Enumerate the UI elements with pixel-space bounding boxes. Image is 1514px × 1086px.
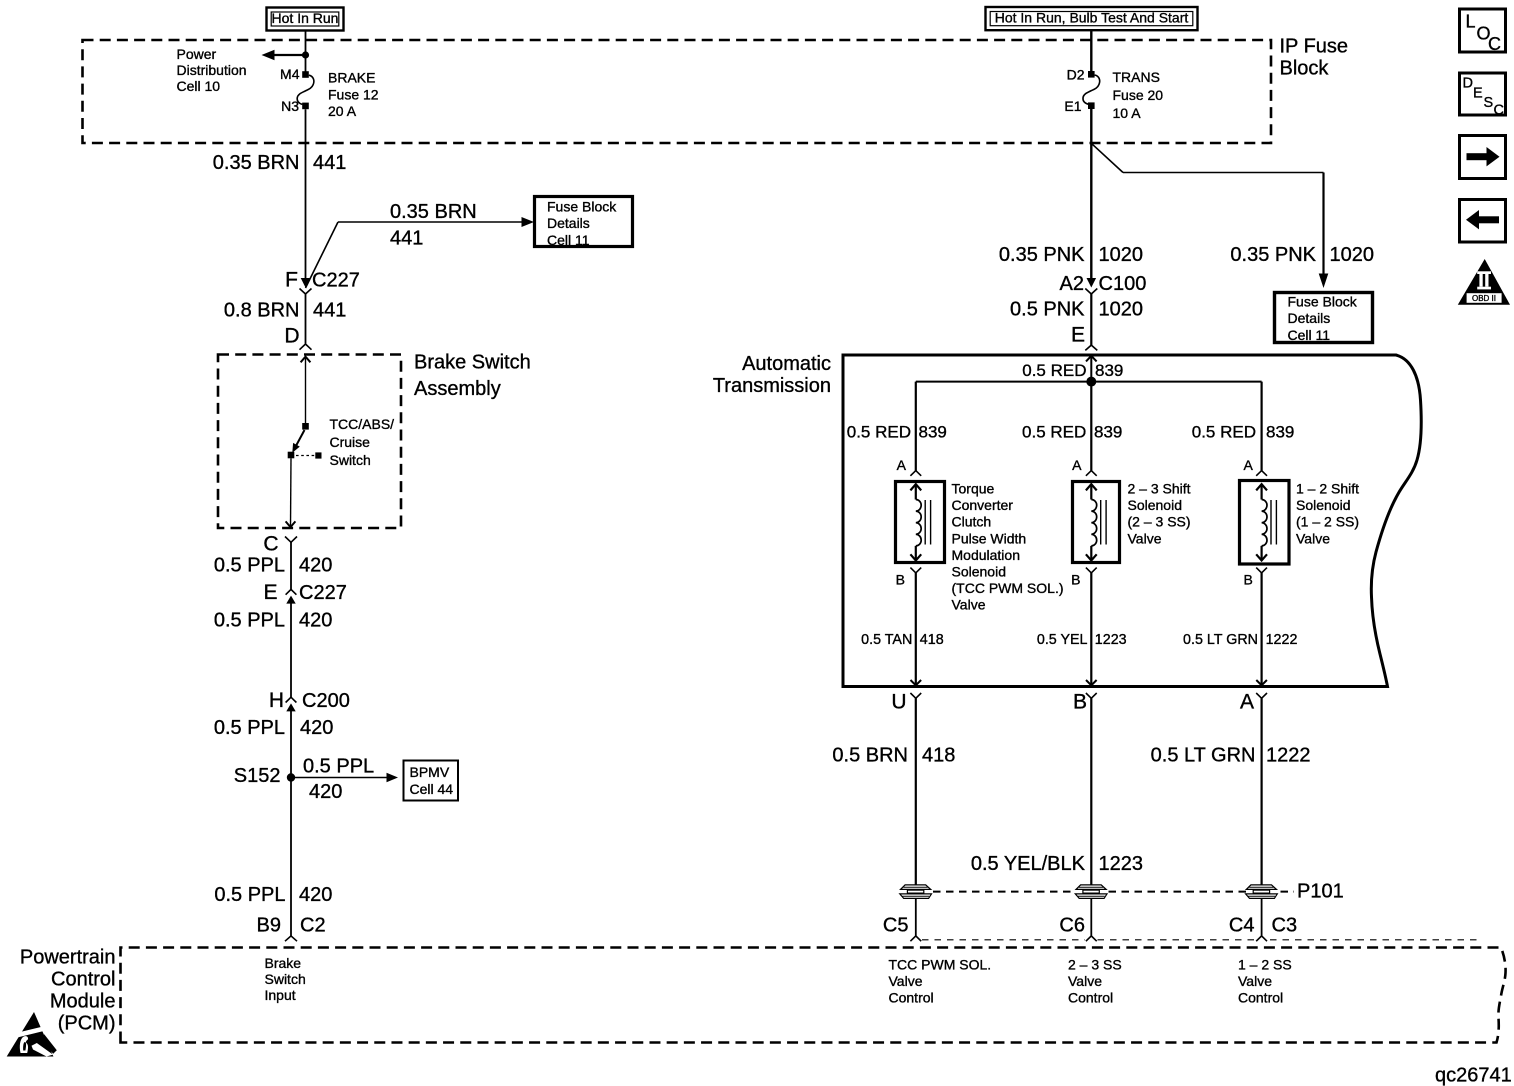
- svg-text:420: 420: [299, 610, 332, 632]
- svg-text:D: D: [1463, 76, 1473, 92]
- svg-text:Brake: Brake: [265, 955, 302, 971]
- icon forward arrow box: [1460, 136, 1506, 179]
- svg-text:839: 839: [919, 423, 947, 442]
- svg-text:0.5 BRN: 0.5 BRN: [832, 745, 908, 767]
- svg-text:Brake Switch: Brake Switch: [414, 352, 531, 374]
- label 0.35 BRN 441: [213, 152, 347, 174]
- svg-text:0.35 PNK: 0.35 PNK: [999, 244, 1085, 266]
- wire switch to box edge with down arrow: [286, 458, 296, 527]
- wire A2 to E: [1090, 294, 1092, 345]
- svg-text:0.5 PPL: 0.5 PPL: [214, 555, 285, 577]
- svg-text:C: C: [1488, 34, 1501, 54]
- svg-text:C100: C100: [1099, 273, 1147, 295]
- svg-text:C2: C2: [300, 915, 326, 937]
- svg-text:Details: Details: [547, 215, 590, 231]
- svg-text:Fuse Block: Fuse Block: [547, 199, 617, 215]
- pin D: [284, 325, 311, 350]
- wire E into box with up arrow: [1086, 356, 1097, 382]
- svg-text:BRAKE: BRAKE: [328, 70, 375, 86]
- svg-text:Block: Block: [1280, 58, 1330, 80]
- svg-text:0.5 RED: 0.5 RED: [847, 423, 911, 442]
- pin B below box: [1073, 691, 1097, 714]
- svg-text:B: B: [896, 572, 905, 588]
- svg-text:(TCC PWM SOL.): (TCC PWM SOL.): [952, 580, 1064, 596]
- svg-text:Valve: Valve: [1238, 973, 1272, 989]
- wire dashed between grommets 2-3: [1109, 891, 1247, 893]
- label 0.5 YEL 1223: [1037, 632, 1127, 648]
- label TCC PWM SOL Valve Control: [889, 957, 992, 1006]
- svg-text:C227: C227: [299, 582, 347, 604]
- svg-text:TCC PWM SOL.: TCC PWM SOL.: [889, 957, 992, 973]
- switch TCC/ABS/Cruise: [288, 423, 322, 459]
- label 0.8 BRN 441: [224, 300, 346, 322]
- svg-text:0.8 BRN: 0.8 BRN: [224, 300, 300, 322]
- wire C to E: [290, 542, 292, 589]
- connector A2 C100: [1060, 273, 1147, 295]
- svg-text:A2: A2: [1060, 273, 1084, 295]
- label 0.35 PNK 1020 (branch): [1230, 244, 1374, 266]
- connector F C227: [285, 269, 360, 295]
- wire B to grommet: [1090, 698, 1092, 885]
- svg-text:2 – 3 SS: 2 – 3 SS: [1068, 957, 1122, 973]
- svg-text:Input: Input: [265, 987, 296, 1003]
- svg-text:Solenoid: Solenoid: [1296, 497, 1351, 513]
- label 0.5 LT GRN 1222: [1183, 632, 1297, 648]
- wire TCC B to box edge with arrow: [911, 573, 922, 685]
- svg-text:1222: 1222: [1266, 632, 1298, 648]
- pin M4: [280, 66, 309, 82]
- wire drop to 1-2 solenoid: [1260, 382, 1262, 471]
- svg-text:N3: N3: [281, 98, 299, 114]
- label 0.5 BRN 418: [832, 745, 955, 767]
- wire U to grommet: [915, 698, 917, 885]
- svg-text:D: D: [284, 325, 299, 348]
- wire arrow to BPMV: [291, 773, 398, 783]
- wire branch horizontal right: [1123, 172, 1324, 174]
- label 0.5 RED 839 (middle): [1022, 423, 1122, 442]
- solenoid 2-3 SS coil: [1086, 484, 1106, 560]
- connector B9 C2: [257, 915, 326, 942]
- svg-text:1 – 2 Shift: 1 – 2 Shift: [1296, 481, 1359, 497]
- svg-text:C: C: [263, 533, 278, 556]
- svg-text:Cruise: Cruise: [330, 434, 371, 450]
- label 0.5 PPL 420 lower: [214, 884, 332, 906]
- svg-text:A: A: [1240, 691, 1254, 714]
- svg-text:10 A: 10 A: [1113, 105, 1142, 121]
- label 1-2 Shift Solenoid: [1296, 481, 1359, 547]
- svg-text:E: E: [263, 581, 277, 604]
- svg-text:Fuse 12: Fuse 12: [328, 86, 379, 102]
- svg-text:1 – 2 SS: 1 – 2 SS: [1238, 957, 1292, 973]
- pin D2: [1067, 67, 1095, 83]
- svg-text:0.5 PPL: 0.5 PPL: [214, 884, 285, 906]
- wire grommet to C5: [915, 898, 917, 936]
- svg-text:Valve: Valve: [952, 597, 986, 613]
- svg-text:TRANS: TRANS: [1113, 69, 1160, 85]
- svg-text:1222: 1222: [1266, 745, 1311, 767]
- label 0.5 PPL 420: [214, 717, 334, 739]
- svg-text:B: B: [1071, 572, 1080, 588]
- wire thin dashed connector line segment 1: [922, 939, 1085, 941]
- svg-text:Switch: Switch: [330, 452, 371, 468]
- icon DESC box: [1460, 73, 1506, 119]
- label IP Fuse Block: [1280, 36, 1349, 80]
- wire E to H: [290, 603, 292, 698]
- svg-text:Control: Control: [889, 990, 934, 1006]
- pin E transmission: [1071, 324, 1097, 351]
- label 0.5 RED 839 (top): [1022, 361, 1123, 380]
- label 0.5 RED 839 (left): [847, 423, 947, 442]
- wire 1-2 B to box edge with arrow: [1256, 573, 1267, 685]
- svg-text:Module: Module: [50, 991, 116, 1013]
- wire branch vertical with down arrow: [1319, 173, 1329, 289]
- automatic transmission box: [843, 355, 1421, 687]
- pin N3: [281, 98, 309, 114]
- svg-text:20 A: 20 A: [328, 103, 357, 119]
- connector E C227: [263, 581, 346, 604]
- svg-text:A: A: [1072, 457, 1082, 473]
- svg-text:Switch: Switch: [265, 971, 306, 987]
- svg-text:Valve: Valve: [1068, 973, 1102, 989]
- svg-text:Modulation: Modulation: [952, 547, 1021, 563]
- svg-text:M4: M4: [280, 66, 300, 82]
- label 0.5 PNK 1020: [1010, 299, 1143, 321]
- svg-text:2 – 3 Shift: 2 – 3 Shift: [1128, 481, 1191, 497]
- svg-text:A: A: [1243, 457, 1253, 473]
- svg-text:L: L: [1466, 12, 1476, 32]
- wire tag2 to D2: [1090, 30, 1092, 71]
- svg-text:0.5 TAN: 0.5 TAN: [861, 632, 912, 648]
- label TCC/ABS/Cruise Switch: [330, 416, 395, 468]
- svg-text:Distribution: Distribution: [177, 62, 247, 78]
- svg-text:Fuse Block: Fuse Block: [1288, 294, 1358, 310]
- svg-text:Cell 10: Cell 10: [177, 78, 221, 94]
- svg-text:1223: 1223: [1099, 853, 1144, 875]
- svg-text:Details: Details: [1288, 310, 1331, 326]
- label 0.5 RED 839 (right): [1192, 423, 1295, 442]
- connector C4 C3: [1229, 915, 1297, 942]
- tag Hot In Run Bulb Test And Start: [986, 7, 1198, 30]
- box Fuse Block Details Cell 11 (right): [1275, 293, 1373, 343]
- node red bus junction: [1086, 377, 1096, 387]
- svg-text:Automatic: Automatic: [742, 353, 831, 375]
- svg-text:420: 420: [299, 884, 332, 906]
- icon OBD II triangle: [1458, 259, 1510, 305]
- label Brake Switch Input: [265, 955, 306, 1003]
- svg-text:0.35 BRN: 0.35 BRN: [390, 201, 477, 223]
- brake switch assembly dashed box: [218, 355, 401, 529]
- label 0.5 LT GRN 1222 lower: [1151, 745, 1311, 767]
- pin B of 2-3 solenoid: [1071, 568, 1097, 588]
- wire thin dashed connector line segment 3: [1270, 939, 1480, 941]
- label 0.5 TAN 418: [861, 632, 944, 648]
- label BRAKE Fuse 12 20 A: [328, 70, 379, 120]
- svg-text:Hot In Run, Bulb Test And Star: Hot In Run, Bulb Test And Start: [995, 10, 1189, 26]
- connector C: [263, 533, 297, 556]
- svg-text:Fuse 20: Fuse 20: [1113, 87, 1164, 103]
- svg-text:Valve: Valve: [889, 973, 923, 989]
- svg-text:B: B: [1243, 572, 1252, 588]
- svg-text:420: 420: [309, 781, 342, 803]
- svg-text:0.5 PPL: 0.5 PPL: [303, 755, 374, 777]
- svg-text:839: 839: [1094, 423, 1122, 442]
- icon LOC box: [1460, 9, 1506, 54]
- icon ESD sensitive device symbol: [7, 1012, 57, 1057]
- svg-text:418: 418: [920, 632, 944, 648]
- svg-text:C5: C5: [883, 915, 909, 937]
- label 0.5 PPL 420: [214, 555, 333, 577]
- svg-text:C: C: [1494, 103, 1504, 119]
- svg-text:(2 – 3 SS): (2 – 3 SS): [1128, 514, 1191, 530]
- pin B of TCC solenoid: [896, 568, 922, 588]
- wire F to D: [305, 294, 307, 344]
- svg-text:441: 441: [313, 152, 346, 174]
- solenoid TCC PWM box: [896, 482, 945, 563]
- svg-text:Torque: Torque: [952, 481, 995, 497]
- solenoid 1-2 SS coil: [1256, 484, 1276, 560]
- IP fuse block dashed box: [83, 40, 1272, 143]
- svg-text:D2: D2: [1067, 67, 1085, 83]
- svg-text:qc26741: qc26741: [1435, 1065, 1512, 1086]
- solenoid 2-3 SS box: [1073, 482, 1120, 563]
- svg-text:Assembly: Assembly: [414, 378, 501, 400]
- svg-text:0.5 YEL/BLK: 0.5 YEL/BLK: [971, 853, 1086, 875]
- wire E1 to A2: [1090, 109, 1092, 279]
- svg-text:0.5 PPL: 0.5 PPL: [214, 717, 285, 739]
- label TRANS Fuse 20 10 A: [1113, 69, 1164, 121]
- solenoid 1-2 SS box: [1240, 481, 1290, 565]
- svg-text:1223: 1223: [1095, 632, 1127, 648]
- PCM dashed box: [121, 948, 1506, 1043]
- svg-text:Power: Power: [177, 46, 217, 62]
- svg-text:Control: Control: [51, 969, 115, 991]
- svg-text:Valve: Valve: [1128, 530, 1162, 546]
- svg-text:0.5 RED: 0.5 RED: [1022, 423, 1086, 442]
- svg-text:(1 – 2 SS): (1 – 2 SS): [1296, 514, 1359, 530]
- svg-text:H: H: [269, 689, 284, 712]
- svg-text:C6: C6: [1059, 915, 1085, 937]
- svg-text:Hot In Run: Hot In Run: [272, 10, 339, 26]
- svg-text:839: 839: [1095, 361, 1123, 380]
- svg-text:A: A: [897, 457, 907, 473]
- node S152: [234, 765, 295, 787]
- icon back arrow box: [1460, 200, 1506, 243]
- fuse TRANS Fuse 20 10 A: [1083, 75, 1100, 104]
- pin A of 2-3 solenoid: [1072, 457, 1097, 476]
- svg-text:Transmission: Transmission: [713, 375, 831, 397]
- svg-text:Control: Control: [1238, 990, 1283, 1006]
- label 0.5 PPL 420 on BPMV branch: [303, 755, 374, 803]
- wire thin dashed connector line segment 2: [1098, 939, 1258, 941]
- box Fuse Block Details Cell 11 (left): [535, 197, 633, 248]
- svg-text:C200: C200: [302, 690, 350, 712]
- svg-text:441: 441: [313, 300, 346, 322]
- svg-text:B: B: [1073, 691, 1087, 714]
- wire switch feed with up arrow: [301, 357, 311, 424]
- svg-text:S: S: [1484, 95, 1494, 111]
- label 0.35 BRN 441 on branch: [390, 201, 477, 250]
- label 0.5 YEL/BLK 1223: [971, 853, 1143, 875]
- pin B of 1-2 solenoid: [1243, 568, 1267, 588]
- svg-text:C4: C4: [1229, 915, 1255, 937]
- svg-text:(PCM): (PCM): [58, 1013, 116, 1035]
- grommet P101 middle: [1075, 885, 1107, 899]
- svg-text:420: 420: [299, 555, 332, 577]
- label 2-3 SS Valve Control: [1068, 957, 1122, 1006]
- svg-text:0.5 PPL: 0.5 PPL: [214, 610, 285, 632]
- grommet P101 left: [900, 885, 932, 899]
- svg-text:Pulse Width: Pulse Width: [952, 530, 1027, 546]
- wire dashed between grommets 1-2: [933, 891, 1074, 893]
- svg-text:441: 441: [390, 228, 423, 250]
- svg-text:C3: C3: [1272, 915, 1298, 937]
- pin A of TCC solenoid: [897, 457, 922, 476]
- grommet P101 right: [1246, 885, 1278, 899]
- wire branch diagonal to fuse block details: [306, 222, 339, 288]
- wire drop to 2-3 solenoid: [1090, 382, 1092, 471]
- svg-text:Control: Control: [1068, 990, 1113, 1006]
- svg-text:0.5 YEL: 0.5 YEL: [1037, 632, 1088, 648]
- svg-text:0.5 LT GRN: 0.5 LT GRN: [1183, 632, 1258, 648]
- connector H C200: [269, 689, 350, 712]
- pin A of 1-2 solenoid: [1243, 457, 1267, 476]
- svg-text:0.5 RED: 0.5 RED: [1022, 361, 1086, 380]
- wire N3 to connector F: [305, 109, 307, 279]
- wire drop to TCC solenoid: [915, 382, 917, 471]
- wire arrow to Power Distribution: [262, 50, 306, 60]
- pin E1: [1064, 98, 1094, 114]
- svg-text:0.5 RED: 0.5 RED: [1192, 423, 1256, 442]
- node junction at power feed: [302, 51, 309, 58]
- svg-text:1020: 1020: [1099, 244, 1144, 266]
- wire 2-3 B to box edge with arrow: [1086, 573, 1097, 685]
- wire H to S152: [290, 711, 292, 936]
- connector C5: [883, 915, 921, 942]
- svg-text:0.35 PNK: 0.35 PNK: [1230, 244, 1316, 266]
- svg-text:C227: C227: [312, 270, 360, 292]
- svg-text:Valve: Valve: [1296, 530, 1330, 546]
- svg-text:0.5 PNK: 0.5 PNK: [1010, 299, 1085, 321]
- svg-text:Solenoid: Solenoid: [1128, 497, 1183, 513]
- svg-text:P101: P101: [1297, 881, 1344, 903]
- svg-text:Cell 44: Cell 44: [410, 781, 454, 797]
- tag Hot In Run: [267, 8, 344, 31]
- svg-text:Solenoid: Solenoid: [952, 564, 1007, 580]
- svg-text:Clutch: Clutch: [952, 514, 992, 530]
- svg-text:OBD II: OBD II: [1472, 294, 1496, 303]
- wire junction to fuse: [305, 55, 307, 72]
- label Powertrain Control Module (PCM): [20, 947, 116, 1035]
- label 0.5 PPL 420: [214, 610, 333, 632]
- connector C6: [1059, 915, 1096, 942]
- wire branch horizontal with arrow: [338, 217, 534, 227]
- wire red bus: [916, 381, 1262, 383]
- label Torque Converter Clutch PWM solenoid: [952, 481, 1064, 613]
- svg-text:IP Fuse: IP Fuse: [1280, 36, 1349, 58]
- svg-text:1020: 1020: [1330, 244, 1375, 266]
- svg-text:E: E: [1473, 86, 1483, 102]
- svg-text:E: E: [1071, 324, 1085, 347]
- svg-text:B9: B9: [257, 915, 281, 937]
- label 1-2 SS Valve Control: [1238, 957, 1292, 1006]
- wire tag to junction: [305, 31, 307, 56]
- wire grommet to C6: [1090, 898, 1092, 936]
- wire dashed grommet 3 to label: [1281, 891, 1295, 893]
- label Automatic Transmission: [713, 353, 831, 397]
- svg-text:420: 420: [300, 717, 333, 739]
- svg-text:Converter: Converter: [952, 497, 1014, 513]
- label Power Distribution Cell 10: [177, 46, 247, 94]
- wire grommet to C4: [1261, 898, 1263, 936]
- svg-text:U: U: [891, 691, 906, 714]
- box BPMV Cell 44: [404, 761, 459, 801]
- svg-text:0.5 LT GRN: 0.5 LT GRN: [1151, 745, 1256, 767]
- wire A to grommet: [1260, 698, 1262, 885]
- label Brake Switch Assembly: [414, 352, 531, 400]
- svg-text:TCC/ABS/: TCC/ABS/: [330, 416, 395, 432]
- solenoid TCC PWM coil: [910, 484, 930, 560]
- fuse BRAKE Fuse 12 20 A: [297, 75, 314, 104]
- label 2-3 Shift Solenoid: [1128, 481, 1191, 547]
- pin U below box: [891, 691, 921, 714]
- svg-text:418: 418: [922, 745, 955, 767]
- pin A below box: [1240, 691, 1267, 714]
- label 0.35 PNK 1020: [999, 244, 1143, 266]
- wire branch diagonal right: [1091, 143, 1123, 172]
- svg-text:E1: E1: [1064, 98, 1081, 114]
- svg-text:0.35 BRN: 0.35 BRN: [213, 152, 300, 174]
- svg-text:Cell 11: Cell 11: [1288, 327, 1331, 343]
- svg-text:BPMV: BPMV: [410, 764, 450, 780]
- svg-text:F: F: [285, 269, 298, 292]
- svg-text:Powertrain: Powertrain: [20, 947, 116, 969]
- svg-text:1020: 1020: [1099, 299, 1144, 321]
- svg-text:839: 839: [1266, 423, 1294, 442]
- svg-text:S152: S152: [234, 765, 281, 787]
- svg-text:Cell 11: Cell 11: [547, 232, 590, 248]
